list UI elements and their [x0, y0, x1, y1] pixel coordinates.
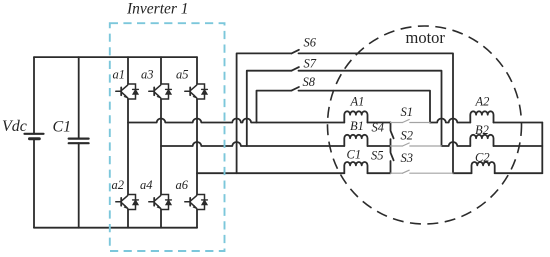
wire B2 to right star [494, 145, 543, 147]
IGBT a3 [149, 84, 172, 99]
svg-text:Inverter 1: Inverter 1 [126, 1, 189, 18]
wire left star vertical (S4 to phase B) [390, 139, 392, 146]
capacitor C1 [69, 57, 89, 228]
wire left star vertical (S5 to phase C) [390, 161, 392, 173]
switch S6 blade [292, 50, 299, 54]
svg-text:S4: S4 [372, 121, 385, 135]
svg-text:motor: motor [406, 28, 446, 47]
inverter 1 dashed enclosure [110, 23, 225, 251]
wire leg 2 lower [160, 210, 162, 228]
IGBT a4 [149, 195, 172, 210]
wire left star vertical upper (phase A to S4) [390, 123, 392, 131]
switch S2 (gray) [391, 143, 442, 146]
svg-text:A1: A1 [350, 95, 365, 109]
wire top DC rail [34, 56, 197, 58]
wire leg 3 upper [196, 57, 198, 84]
IGBT a2 [116, 195, 139, 210]
wire A2 to right star [494, 122, 543, 124]
switch S3 (gray) [391, 170, 454, 173]
wire B2 line with hop over S6 riser [442, 142, 471, 146]
wire leg 2 middle [160, 99, 162, 195]
winding B2 [470, 135, 493, 146]
wire phase B with hops over leg3, S6 riser [161, 142, 344, 146]
wire phase B to star point [368, 145, 391, 147]
switch S7 blade [292, 67, 299, 71]
switch S7 line right and riser to B2 [299, 71, 442, 146]
switch S7 line left and riser to phase B [247, 71, 292, 146]
wire phase A with hops over leg2, leg3, S6 riser, S7 riser [128, 118, 344, 122]
wire leg 1 middle (a1 emitter to a2 collector) [127, 99, 129, 195]
svg-text:S5: S5 [371, 149, 384, 163]
motor dashed circle [328, 26, 522, 224]
svg-text:a4: a4 [140, 178, 153, 192]
wire leg 1 upper (collector a1) [127, 57, 129, 84]
winding A2 [470, 111, 493, 122]
wire right star point vertical [541, 123, 543, 174]
svg-text:A2: A2 [475, 94, 490, 108]
svg-text:S6: S6 [304, 36, 317, 50]
wire leg 3 lower [196, 210, 198, 228]
wire bottom DC rail [34, 227, 197, 229]
winding C2 [472, 162, 495, 173]
wire phase A to star point [368, 122, 391, 124]
svg-text:a1: a1 [113, 68, 126, 82]
switch S6 line right and riser to C2 [299, 53, 454, 173]
svg-text:S2: S2 [401, 128, 414, 142]
wire A2 line with hops over S7 riser, S6 riser [430, 119, 470, 123]
svg-text:a5: a5 [176, 68, 189, 82]
wire C2 line [453, 172, 472, 174]
wire leg 3 middle [196, 99, 198, 195]
svg-text:C1: C1 [347, 148, 362, 162]
wire C2 to right star [495, 172, 543, 174]
IGBT a6 [185, 195, 208, 210]
wire phase C [197, 172, 344, 174]
switch S8 line left and riser to phase A [257, 91, 292, 123]
svg-text:B1: B1 [350, 119, 364, 133]
winding B1 [344, 135, 367, 146]
svg-text:a6: a6 [176, 178, 189, 192]
wire leg 2 upper [160, 57, 162, 84]
switch S5 blade [391, 153, 394, 160]
svg-text:S8: S8 [303, 75, 316, 89]
IGBT a1 [116, 84, 139, 99]
winding C1 [344, 162, 367, 173]
IGBT a5 [185, 84, 208, 99]
switch S6 line left and riser to phase C [237, 53, 292, 173]
switch S8 line right and riser to A2 [299, 91, 431, 123]
svg-text:a2: a2 [112, 178, 125, 192]
svg-text:a3: a3 [141, 68, 154, 82]
svg-text:B2: B2 [475, 123, 489, 137]
switch S4 blade [391, 131, 394, 138]
svg-text:Vdc: Vdc [2, 118, 27, 135]
svg-text:S3: S3 [401, 151, 414, 165]
svg-text:S7: S7 [304, 57, 317, 71]
switch S1 (gray) [391, 120, 431, 123]
svg-text:C1: C1 [53, 119, 72, 136]
switch S8 blade [292, 87, 299, 91]
winding A1 [344, 111, 367, 122]
wire left star vertical (phase B to S5) [390, 146, 392, 152]
wire leg 1 lower (a2 emitter to bottom rail) [127, 210, 129, 228]
wire phase C to star point [368, 172, 391, 174]
svg-text:S1: S1 [401, 105, 414, 119]
battery Vdc [25, 57, 44, 228]
svg-text:C2: C2 [475, 151, 490, 165]
